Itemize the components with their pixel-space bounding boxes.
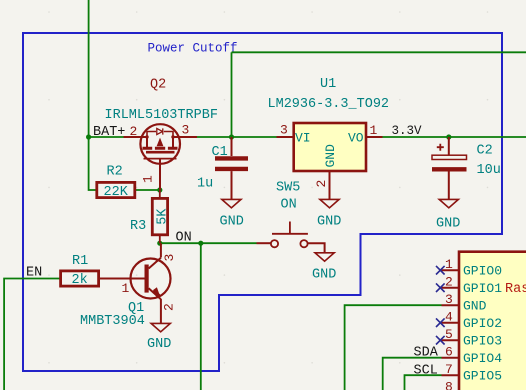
svg-text:Q2: Q2 <box>150 78 166 93</box>
ground below U1 <box>317 199 341 229</box>
svg-text:C1: C1 <box>212 145 228 160</box>
wire top feed horizontal <box>232 51 526 53</box>
svg-text:Ras: Ras <box>505 282 526 297</box>
svg-text:4: 4 <box>445 310 453 325</box>
svg-text:22K: 22K <box>104 185 129 200</box>
svg-text:3: 3 <box>445 292 453 307</box>
wire BAT+ vertical <box>88 0 90 137</box>
svg-text:1: 1 <box>370 123 378 138</box>
svg-text:1: 1 <box>445 257 453 272</box>
svg-text:SCL: SCL <box>414 364 438 379</box>
wire top feed vertical to C1 node <box>231 52 233 137</box>
svg-text:GPIO4: GPIO4 <box>463 351 502 366</box>
svg-text:SDA: SDA <box>414 346 439 361</box>
svg-text:7: 7 <box>445 362 453 377</box>
node C1 junction <box>229 134 234 139</box>
svg-text:C2: C2 <box>477 144 493 159</box>
svg-text:GND: GND <box>323 144 338 168</box>
svg-text:2: 2 <box>162 303 177 311</box>
wire EN to R1 <box>4 279 60 390</box>
svg-text:VO: VO <box>348 131 364 146</box>
svg-text:8: 8 <box>445 380 453 390</box>
svg-text:2: 2 <box>445 275 453 290</box>
svg-text:VI: VI <box>295 131 311 146</box>
resistor R1 2k <box>61 254 99 288</box>
svg-text:SW5: SW5 <box>276 181 300 196</box>
svg-text:ON: ON <box>281 198 297 213</box>
ground below SW5 <box>312 253 336 283</box>
switch SW5 ON pushbutton <box>257 181 325 253</box>
resistor R3 5K <box>130 190 171 243</box>
svg-text:GPIO5: GPIO5 <box>463 369 502 384</box>
svg-text:2k: 2k <box>72 273 88 288</box>
svg-text:1: 1 <box>141 175 156 183</box>
svg-text:GND: GND <box>436 217 460 232</box>
svg-text:GPIO1: GPIO1 <box>463 281 502 296</box>
svg-text:3: 3 <box>182 123 190 138</box>
wire ON node down <box>200 243 202 390</box>
wire SCL <box>405 375 442 390</box>
no-connect X pin5 <box>436 336 445 345</box>
svg-text:GPIO2: GPIO2 <box>463 316 502 331</box>
transistor Q2 P-MOSFET IRLML5103TRPBF <box>105 78 218 191</box>
sheet Power Cutoff <box>23 33 502 371</box>
svg-text:3: 3 <box>162 254 177 262</box>
no-connect X pin4 <box>436 318 445 327</box>
svg-text:1: 1 <box>122 281 130 296</box>
svg-text:Power Cutoff: Power Cutoff <box>148 42 238 56</box>
wire R2 to gate node <box>136 189 160 191</box>
svg-text:2: 2 <box>314 180 329 188</box>
svg-text:IRLML5103TRPBF: IRLML5103TRPBF <box>105 108 218 123</box>
transistor Q1 NPN MMBT3904 <box>80 243 177 329</box>
ground below Q1 <box>147 323 171 352</box>
wire GND pin3 of connector <box>345 305 442 390</box>
wire Q2 drain to VI <box>197 136 277 138</box>
svg-text:GPIO0: GPIO0 <box>463 264 502 279</box>
svg-text:GND: GND <box>317 215 341 230</box>
svg-text:2: 2 <box>130 124 138 139</box>
svg-text:1u: 1u <box>197 177 213 192</box>
svg-text:LM2936-3.3_TO92: LM2936-3.3_TO92 <box>268 97 390 112</box>
svg-text:ON: ON <box>176 231 192 246</box>
svg-text:5: 5 <box>445 327 453 342</box>
svg-text:3: 3 <box>280 123 288 138</box>
svg-text:MMBT3904: MMBT3904 <box>80 314 145 329</box>
svg-text:GND: GND <box>312 268 336 283</box>
svg-text:EN: EN <box>26 266 42 281</box>
svg-text:GND: GND <box>463 299 487 314</box>
svg-text:R3: R3 <box>130 219 146 234</box>
ground below C1 <box>220 199 244 229</box>
regulator U1 LM2936-3.3_TO92 <box>268 77 390 199</box>
no-connect X pin2 <box>436 283 445 292</box>
svg-text:R2: R2 <box>107 165 123 180</box>
svg-text:GPIO3: GPIO3 <box>463 334 502 349</box>
svg-text:3.3V: 3.3V <box>392 124 423 138</box>
node ON junction at R3 <box>157 241 162 246</box>
svg-text:5K: 5K <box>156 208 171 225</box>
svg-text:R1: R1 <box>72 254 88 269</box>
capacitor C2 10u polarized <box>432 137 501 199</box>
svg-text:10u: 10u <box>477 163 501 178</box>
svg-text:U1: U1 <box>320 77 336 92</box>
no-connect X pin1 <box>436 266 445 275</box>
wire BAT+ to Q2 source <box>89 136 124 138</box>
node gate junction <box>157 187 162 192</box>
wire VO to 3.3V rail <box>383 136 526 138</box>
wire SDA <box>383 358 442 390</box>
node ON junction at switch branch <box>198 241 203 246</box>
svg-text:6: 6 <box>445 345 453 360</box>
wire BAT+ down to R2 <box>89 137 97 190</box>
ground below C2 <box>436 199 460 231</box>
svg-text:GND: GND <box>220 215 244 230</box>
resistor R2 22K <box>97 165 135 201</box>
node BAT+ junction <box>86 134 91 139</box>
wire ON node horizontal <box>160 242 257 244</box>
svg-text:GND: GND <box>147 337 171 352</box>
connector J GPIO header <box>442 252 526 390</box>
svg-text:BAT+: BAT+ <box>93 125 125 140</box>
node C2 junction <box>446 134 451 139</box>
capacitor C1 1u <box>197 137 248 199</box>
